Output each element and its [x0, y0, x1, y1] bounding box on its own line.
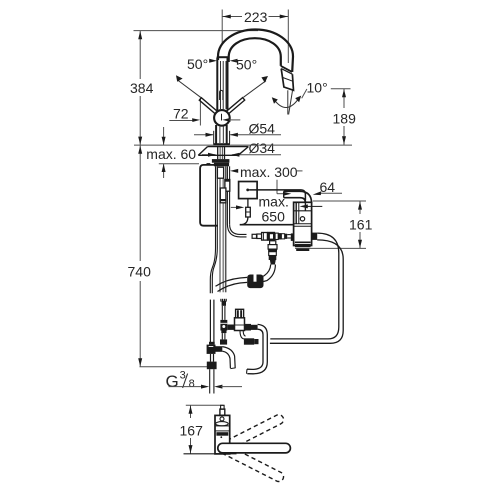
body tube below ball [215, 125, 217, 144]
dimension 50deg right line [243, 81, 266, 98]
supply pipe to G3/8 [210, 354, 212, 362]
svg-text:8: 8 [189, 378, 195, 390]
svg-text:161: 161 [349, 217, 373, 233]
hose check valve to filter [263, 265, 271, 277]
lever vertical arrows at riser [210, 60, 213, 62]
dimension 10deg leader [302, 89, 307, 98]
valve left connector [291, 233, 294, 241]
dimension max650 arrow [231, 206, 238, 208]
swivel oval [216, 422, 229, 426]
neck [220, 409, 225, 415]
dimension 167 line [190, 405, 192, 418]
spout arc inner [229, 38, 281, 66]
dimension 189 arrows [342, 89, 346, 144]
dimension G3/8 arrows [169, 386, 203, 388]
hose A solenoid to open end [247, 324, 267, 373]
dimension O54 arrows [206, 133, 238, 137]
dimension 167 arrows [189, 406, 193, 454]
solid swivel arm [218, 443, 291, 453]
spray head joint [281, 66, 292, 72]
dark band [216, 432, 228, 436]
dimension 189 top line [331, 88, 351, 90]
svg-text:189: 189 [333, 110, 357, 126]
dimension 167 top line [186, 404, 224, 406]
hose bundle left pair [210, 166, 215, 293]
dimension 223 line [222, 16, 242, 18]
svg-text:max. 300: max. 300 [240, 164, 298, 180]
svg-text:167: 167 [180, 422, 204, 438]
supply check valve tee block [220, 320, 227, 331]
wire hose connectors [252, 234, 256, 238]
dimension 384 arrows [138, 31, 142, 145]
bundle connector rect 2 [225, 180, 230, 192]
mounting bracket rounded rectangle [200, 165, 218, 226]
ball joint [214, 110, 230, 126]
dimension max60 upper arrow [163, 127, 165, 145]
dimension O54 line [194, 134, 213, 136]
dimension max60 bottom reference line [159, 163, 199, 165]
solenoid bottom outlet stub [240, 331, 244, 339]
shank [217, 147, 219, 160]
counter top line [134, 144, 352, 146]
dimension 740 line [139, 145, 141, 261]
dimension 740 bottom reference line [140, 366, 208, 368]
faucet hoses lower section [209, 300, 211, 343]
dimension 64 leader [318, 192, 343, 194]
tee right branch [216, 346, 223, 352]
cable line to valve [240, 224, 294, 226]
dimension 384 line [139, 31, 141, 79]
control box cable down [247, 199, 249, 208]
big loop hose top elbow [270, 233, 339, 339]
svg-text:740: 740 [128, 263, 152, 279]
dimension 161 arrows [358, 201, 362, 248]
hose filter to faucet hoses [216, 277, 248, 286]
base flange [213, 143, 230, 145]
solenoid right outlet [245, 324, 252, 331]
lever column inner lines [220, 61, 222, 109]
valve interior arrow [307, 205, 323, 207]
dimension O34 line [202, 154, 216, 156]
dimension 223 arrows [223, 15, 288, 19]
dimension 740 arrows [138, 146, 142, 367]
bundle connector rect 1 [217, 167, 223, 178]
hose bundle grey pull-out hose [219, 166, 221, 292]
valve body [294, 202, 312, 245]
dimension 223 extension left [221, 10, 223, 45]
mounting nut [212, 159, 230, 163]
dimension 72 arrow at ball [222, 118, 230, 122]
svg-text:50°: 50° [187, 56, 208, 72]
svg-text:72: 72 [173, 105, 189, 121]
dimension max300 bent leader [276, 180, 278, 194]
dimension 384 top reference line [134, 30, 259, 32]
svg-text:G: G [166, 372, 179, 391]
svg-text:3: 3 [180, 370, 186, 382]
lever column [216, 58, 218, 111]
check valve below wire hose [270, 241, 276, 245]
control box [239, 182, 258, 199]
dimension O34 arrows [208, 153, 239, 157]
dimension 72 extension line [199, 97, 201, 126]
dimension 10deg angle arc [274, 97, 300, 107]
supply tee [209, 342, 215, 345]
svg-text:max. 60: max. 60 [146, 146, 196, 162]
dimension 189 line [343, 89, 345, 108]
escutcheon sides [213, 131, 215, 144]
svg-text:384: 384 [130, 80, 154, 96]
inline filter [247, 275, 263, 289]
dimension max60 lower arrow [163, 164, 165, 178]
svg-text:64: 64 [320, 179, 336, 195]
svg-text:Ø54: Ø54 [249, 120, 276, 136]
svg-text:Ø34: Ø34 [249, 140, 276, 156]
wire hose to valve [230, 224, 247, 234]
control box wire to valve [249, 190, 305, 200]
spout arc outer [218, 30, 293, 72]
svg-text:223: 223 [244, 9, 268, 25]
valve bottom foot [295, 242, 311, 248]
counter parallelogram [208, 146, 249, 148]
lever position right [227, 98, 245, 114]
svg-text:50°: 50° [236, 57, 257, 73]
dashed arm down [216, 442, 285, 484]
elbow pipe on valve [284, 191, 312, 203]
solenoid valve [235, 318, 245, 331]
dimension 161 line [359, 201, 361, 214]
dimension 10deg angle lines [287, 90, 289, 114]
valve right connector [312, 233, 318, 240]
svg-text:10°: 10° [307, 80, 328, 96]
link to solenoid [227, 325, 234, 330]
supply check valve connector [222, 301, 226, 306]
dimension max300 arrow at faucet [230, 169, 238, 173]
spray head body [281, 69, 293, 91]
base line [184, 453, 237, 455]
inner hose arch in riser [220, 90, 223, 100]
dimension 161 extension lines [313, 200, 366, 202]
spray body side view [215, 415, 230, 454]
inner circle [220, 417, 224, 421]
hose bundle straight lines [225, 166, 227, 292]
bundle connector rect 3 [220, 188, 226, 203]
drop hose from tee [222, 347, 235, 369]
svg-text:650: 650 [262, 208, 286, 224]
lever position left [199, 98, 217, 114]
dimension 50deg left line [178, 80, 201, 97]
dimension 72 leader [169, 120, 192, 122]
dimension 223 extension right [287, 10, 289, 64]
dashed arm up [216, 413, 285, 455]
